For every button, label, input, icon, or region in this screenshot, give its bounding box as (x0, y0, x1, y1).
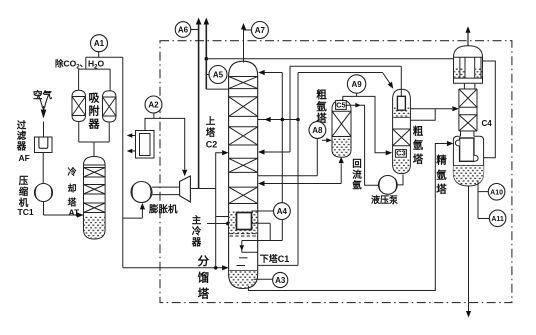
arrow into expander (140, 203, 145, 210)
main condenser core 主冷器 (237, 213, 252, 230)
svg-text:液压泵: 液压泵 (371, 194, 399, 205)
turbine (trapezoid) (180, 176, 191, 202)
wire filter to compressor (42, 153, 44, 184)
svg-text:主: 主 (192, 215, 202, 227)
C4 condenser vessel (454, 46, 483, 84)
svg-text:粗: 粗 (316, 88, 327, 101)
C1 bottom liquid (dotted) (229, 271, 257, 288)
C4 condenser tube wall 3 (474, 57, 476, 78)
wire compressor discharge (43, 202, 45, 216)
wire riser2 to C2 (206, 88, 228, 90)
reflux path top (242, 240, 282, 242)
svg-text:A3: A3 (275, 276, 286, 285)
riser 1 (waste N2) (198, 20, 200, 189)
C4 condenser tube wall 1 (459, 57, 461, 78)
C2 packing X1 (229, 77, 258, 89)
branch into condenser band (216, 216, 229, 218)
adsorber top manifold (79, 68, 111, 70)
svg-text:滤: 滤 (17, 130, 27, 142)
analyzer A5 (209, 66, 227, 84)
svg-text:冷: 冷 (67, 166, 76, 177)
main air line down to lower column (122, 57, 124, 267)
adsorber vessel left (72, 90, 86, 121)
tower packing X 3 (84, 203, 106, 213)
svg-text:却: 却 (67, 183, 76, 194)
svg-text:分: 分 (198, 254, 210, 268)
C3 top condenser core (397, 96, 405, 110)
vertical pipe x=215.7 (expanded air / liquid air) (216, 153, 222, 268)
A8 drop line (316, 139, 318, 176)
wire tower top to adsorber manifold (93, 142, 95, 157)
C3 to C4 feed (410, 108, 452, 110)
long line H72 to C3 dome (298, 72, 383, 74)
pure argon column C4 (458, 89, 460, 131)
精氩塔 reboiler core (460, 138, 474, 161)
svg-text:氩: 氩 (352, 180, 362, 192)
精氩塔 neck (460, 131, 462, 136)
svg-text:下塔C1: 下塔C1 (260, 253, 290, 264)
air intake funnel (38, 95, 48, 109)
svg-text:C2: C2 (206, 140, 218, 150)
C5 overhead line (343, 96, 386, 152)
svg-text:A9: A9 (351, 80, 362, 89)
C4 condenser tube wall 4 (480, 57, 482, 78)
arrow into C5 bottom (339, 157, 344, 164)
analyzer A1 (91, 35, 108, 52)
C4 packing X1 (459, 89, 477, 107)
svg-text:缩: 缩 (19, 186, 29, 198)
svg-text:C5: C5 (336, 101, 346, 110)
cooling tower AT vessel (84, 157, 106, 240)
arrow into C3 (386, 150, 393, 155)
svg-text:A8: A8 (312, 126, 323, 135)
vertical pipe x=282 to A4 (281, 73, 283, 203)
wire air intake down (43, 106, 45, 110)
analyzer A8 (309, 122, 326, 139)
branch into condenser core (207, 223, 232, 225)
analyzer A4 (274, 203, 291, 220)
C4 condenser tube wall 2 (464, 57, 466, 78)
C5 packing X (332, 111, 351, 136)
svg-text:粗: 粗 (413, 125, 424, 138)
wire right adsorber bottom (108, 122, 110, 142)
svg-text:器: 器 (88, 118, 101, 131)
crude argon column C5 (332, 100, 351, 157)
svg-text:塔: 塔 (67, 197, 77, 208)
product argon riser (467, 28, 469, 46)
C2 dome base line (229, 76, 258, 78)
tower liquid (dotted) (84, 216, 104, 239)
svg-text:A4: A4 (277, 207, 288, 216)
svg-text:AT: AT (69, 208, 81, 218)
svg-text:C3: C3 (396, 149, 406, 158)
analyzer A9 (347, 75, 365, 93)
wire A4 down (281, 220, 283, 241)
svg-text:馏: 馏 (198, 271, 210, 285)
C1 liquid level dashes (239, 257, 248, 259)
adsorber bottom manifold (79, 141, 110, 143)
C5 to pump line (346, 105, 378, 185)
fractionating column outline (C2/C1) (229, 61, 258, 288)
wire C2/C5 bottom (y=183.5) (264, 183, 341, 185)
svg-text:过: 过 (17, 120, 27, 132)
junction riser2/H58 (205, 57, 209, 61)
svg-text:氩: 氩 (435, 168, 447, 181)
shaft line 1 (152, 186, 180, 188)
liquid argon pump 液压泵 (378, 176, 397, 195)
wire into C1 right (y=265) (258, 264, 298, 266)
C2 packing X3 (229, 127, 258, 145)
compressor TC1 (35, 184, 53, 202)
wire A1 stub (98, 52, 100, 58)
long line H58 to C4 condenser (206, 58, 453, 60)
shaft line 2 (152, 194, 180, 196)
arrow into turbine (182, 170, 187, 177)
analyzer A7 (251, 22, 268, 39)
svg-text:器: 器 (191, 238, 202, 249)
svg-text:A11: A11 (491, 216, 504, 223)
wire A5 stub (206, 74, 209, 76)
diagonal into C3 dome (383, 73, 390, 84)
wire A2 stub (153, 113, 155, 118)
svg-text:塔: 塔 (436, 183, 447, 196)
C5 label box (336, 101, 347, 110)
cold box boundary (dash-dot) (160, 41, 512, 303)
C4 condenser tubesheet (454, 77, 483, 79)
C4 condenser dome base (454, 56, 483, 58)
svg-text:上: 上 (206, 116, 216, 128)
wire A8 to C5 (322, 139, 327, 141)
heat exchanger inner (140, 134, 151, 156)
regen gas line 2 (128, 150, 136, 152)
C4 packing X2 (459, 115, 477, 131)
svg-text:冷: 冷 (192, 226, 202, 238)
wire into C2 (y=152) (264, 151, 290, 153)
long line H66 to C3 core (290, 65, 401, 67)
wire A9 stub (356, 93, 358, 96)
pure argon column C4 neck (463, 83, 465, 89)
vertical pipe x=290 (289, 66, 291, 152)
riser 2 (product N2) (205, 20, 207, 90)
analyzer A10 (488, 184, 505, 201)
svg-text:精: 精 (436, 153, 447, 166)
heat exchanger outer (136, 131, 155, 159)
C5 liquid (dotted) (333, 139, 351, 157)
A10/A11 manifold (477, 181, 479, 219)
expander feed branch (123, 217, 143, 219)
svg-text:塔: 塔 (206, 127, 216, 139)
svg-text:C4: C4 (482, 119, 493, 128)
reflux into C1 (242, 251, 258, 253)
analyzer A6 (175, 22, 191, 38)
svg-text:塔: 塔 (198, 287, 210, 301)
wire left adsorber bottom (78, 122, 80, 143)
analyzer A2 (145, 96, 162, 113)
air feed line to C1 (123, 267, 223, 269)
arrow into C2 mid (222, 150, 229, 155)
arrow feed into C1 (222, 265, 229, 270)
regen gas line 1 (128, 135, 136, 137)
wire right adsorber top (109, 69, 111, 91)
turbine outlet line (190, 188, 215, 190)
junction feed/condenser branch (214, 266, 218, 270)
svg-text:A2: A2 (148, 100, 159, 109)
arrow into cooling tower (77, 212, 84, 217)
svg-text:压: 压 (19, 176, 29, 187)
svg-text:回: 回 (352, 159, 362, 170)
tower packing X 1 (84, 168, 106, 178)
wire core to A4 (252, 210, 274, 212)
arrow into core (231, 221, 237, 226)
wire left adsorber top (78, 69, 80, 90)
svg-text:氩: 氩 (412, 139, 424, 152)
C3 packing X (393, 129, 411, 146)
pure argon product line down (468, 186, 470, 311)
svg-text:A7: A7 (255, 26, 266, 35)
wire into C2 (y=119.5) (258, 119, 298, 121)
svg-text:A1: A1 (94, 39, 105, 48)
svg-text:器: 器 (16, 142, 27, 153)
arrow into filter (41, 110, 47, 119)
wire to cooling tower (44, 214, 84, 216)
wire into filter (43, 122, 45, 138)
reflux argon riser (340, 164, 342, 184)
crude argon column C3 (393, 89, 411, 173)
C3 liquid (dotted) (393, 159, 410, 174)
vertical pipe x=298 (297, 73, 299, 266)
main condenser liquid band (229, 211, 257, 235)
C2 packing X2 (229, 97, 258, 117)
C2 packing X5 (229, 187, 258, 203)
svg-text:流: 流 (352, 169, 362, 181)
svg-text:膨胀机: 膨胀机 (148, 204, 178, 216)
C4 to C3 return (410, 109, 435, 121)
analyzer A11 (489, 210, 506, 227)
精氩塔 bottom vessel (453, 136, 483, 186)
junction on tower feed (76, 213, 80, 217)
svg-text:A10: A10 (490, 189, 503, 196)
svg-text:A5: A5 (213, 70, 224, 79)
wire A6 stub (191, 29, 199, 31)
wire C2 to A8 (y=175.8) (258, 175, 318, 177)
drop into C3 core (400, 66, 402, 96)
arrow down reflux (240, 245, 245, 251)
svg-text:附: 附 (89, 104, 100, 118)
filter AF (35, 137, 53, 153)
wire A3 stub (254, 278, 273, 280)
svg-text:空气: 空气 (33, 90, 53, 102)
wire HX to turbine inlet (145, 118, 185, 169)
H2O box (86, 56, 123, 58)
C2 overhead riser (243, 25, 245, 63)
adsorber vessel right (103, 91, 117, 122)
svg-text:吸: 吸 (89, 92, 101, 105)
feed line C1 bottom to 精氩塔 (248, 144, 447, 291)
svg-text:AF: AF (19, 153, 30, 163)
tower dome base line (84, 164, 106, 166)
condenser band bottom dashes (230, 234, 258, 236)
svg-text:A6: A6 (178, 25, 189, 34)
svg-text:TC1: TC1 (18, 207, 34, 217)
svg-text:塔: 塔 (413, 153, 424, 166)
analyzer A3 (273, 272, 288, 287)
svg-text:氩: 氩 (315, 100, 327, 113)
C3 label box (395, 150, 406, 158)
expander circle (131, 182, 152, 203)
C2 packing X4 (229, 158, 258, 172)
wire A7 stub (244, 29, 252, 31)
C4 condenser right return to reboiler (483, 61, 496, 158)
wire core right (252, 222, 271, 224)
tower packing X 2 (84, 185, 106, 195)
wire into C2 dome (265, 72, 283, 74)
